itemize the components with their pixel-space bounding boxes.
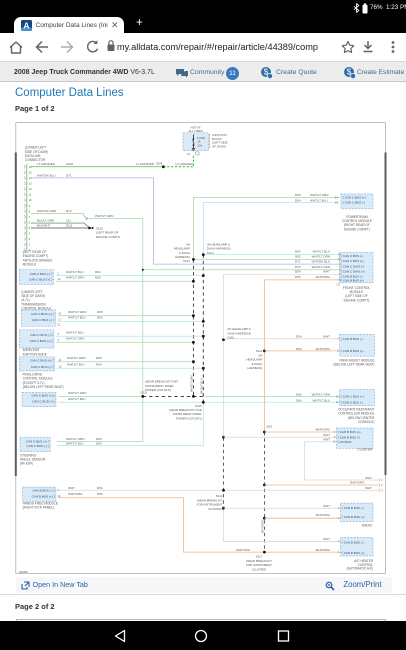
svg-text:ALL TIMES: ALL TIMES <box>188 129 203 133</box>
svg-text:CAN B BUS (+): CAN B BUS (+) <box>343 279 364 283</box>
svg-text:WHT/LT BLU: WHT/LT BLU <box>66 330 84 334</box>
svg-text:LT GRN/RED: LT GRN/RED <box>37 162 56 166</box>
svg-text:WHT/DK BLU: WHT/DK BLU <box>37 173 56 177</box>
svg-text:D64: D64 <box>96 362 102 366</box>
svg-text:WHT/LT GRN: WHT/LT GRN <box>312 255 330 259</box>
svg-text:WHT/ORG: WHT/ORG <box>261 520 265 533</box>
svg-text:CAN B BUS (+): CAN B BUS (+) <box>343 349 364 353</box>
svg-text:D64: D64 <box>96 442 102 446</box>
svg-text:CAN C BUS (-): CAN C BUS (-) <box>30 333 50 337</box>
svg-text:WHT/LT BLU: WHT/LT BLU <box>68 397 86 401</box>
svg-text:CAN B BUS (+): CAN B BUS (+) <box>344 515 365 519</box>
svg-text:CAN C BUS (+): CAN C BUS (+) <box>343 395 364 399</box>
svg-text:WHT/ORG: WHT/ORG <box>236 548 251 552</box>
svg-text:CAN C BUS (+): CAN C BUS (+) <box>343 259 364 263</box>
svg-text:WHT/ORG: WHT/ORG <box>316 275 331 279</box>
svg-text:IGNITION NODE: IGNITION NODE <box>23 352 47 356</box>
svg-text:S112: S112 <box>256 349 263 353</box>
svg-text:Z111: Z111 <box>66 224 73 228</box>
svg-text:S208: S208 <box>156 161 163 165</box>
svg-text:CAN C BUS (-): CAN C BUS (-) <box>343 400 363 404</box>
svg-text:POWER (OUTLET)): POWER (OUTLET)) <box>145 388 171 392</box>
svg-text:WHT/LT BLU: WHT/LT BLU <box>199 378 203 394</box>
svg-text:MODULE: MODULE <box>23 263 37 267</box>
svg-text:WHT/ORG: WHT/ORG <box>350 481 365 485</box>
svg-text:WHT: WHT <box>68 486 75 490</box>
svg-text:CAN B BUS (-): CAN B BUS (-) <box>340 435 360 439</box>
svg-text:WHT: WHT <box>323 537 330 541</box>
svg-text:260365: 260365 <box>19 570 28 574</box>
svg-text:WHT: WHT <box>365 476 372 480</box>
svg-text:CAN B BUS (-): CAN B BUS (-) <box>32 488 52 492</box>
svg-text:CAN C BUS (+): CAN C BUS (+) <box>30 358 51 362</box>
svg-text:CAN C BUS (+): CAN C BUS (+) <box>29 339 50 343</box>
svg-text:WHT: WHT <box>323 270 330 274</box>
svg-text:15: 15 <box>29 170 32 174</box>
svg-text:CAN B BUS (+): CAN B BUS (+) <box>344 551 365 555</box>
svg-text:LIN BUS: LIN BUS <box>340 440 352 444</box>
svg-text:CAN C BUS (+): CAN C BUS (+) <box>29 278 50 282</box>
svg-text:D72: D72 <box>295 265 301 269</box>
svg-text:WHT/LT GRN: WHT/LT GRN <box>68 310 86 314</box>
svg-text:HARNESS): HARNESS) <box>247 366 262 370</box>
svg-text:RADIO: RADIO <box>362 523 373 527</box>
svg-text:CAN B BUS (+): CAN B BUS (+) <box>32 495 53 499</box>
svg-text:CAN C BUS (-): CAN C BUS (-) <box>343 254 363 258</box>
svg-text:S103: S103 <box>183 259 190 263</box>
svg-text:WHT/LT BLU: WHT/LT BLU <box>312 250 330 254</box>
svg-text:C2: C2 <box>337 283 341 287</box>
svg-text:10: 10 <box>29 198 32 202</box>
svg-text:WHT: WHT <box>323 335 330 339</box>
svg-text:ENGINE COMPT): ENGINE COMPT) <box>96 235 120 239</box>
svg-text:CAN C BUS (-): CAN C BUS (-) <box>32 318 52 322</box>
svg-text:WHT/DK BLU: WHT/DK BLU <box>311 259 330 263</box>
svg-text:D64: D64 <box>295 198 301 202</box>
svg-text:WHT/LT GRN: WHT/LT GRN <box>66 276 84 280</box>
svg-text:WHT/LT BLU: WHT/LT BLU <box>66 442 84 446</box>
svg-text:(BELOW LEFT REAR SEAT): (BELOW LEFT REAR SEAT) <box>23 385 64 389</box>
svg-text:D64: D64 <box>97 316 103 320</box>
svg-text:WHT/LT BLU: WHT/LT BLU <box>66 270 84 274</box>
svg-text:WHT: WHT <box>323 438 330 442</box>
svg-text:D64: D64 <box>295 250 301 254</box>
svg-text:WHT/LT GRN: WHT/LT GRN <box>310 193 328 197</box>
svg-text:CAN C BUS (-): CAN C BUS (-) <box>27 444 47 448</box>
svg-text:D65: D65 <box>295 255 301 259</box>
svg-text:LT GRN/RED: LT GRN/RED <box>176 162 195 166</box>
svg-text:WHT/LT GRN: WHT/LT GRN <box>312 393 330 397</box>
svg-text:21: 21 <box>187 152 190 156</box>
svg-text:(BELOW LEFT REAR SEAT): (BELOW LEFT REAR SEAT) <box>334 363 375 367</box>
svg-text:(AUTOMATIC A/C): (AUTOMATIC A/C) <box>347 567 374 571</box>
svg-text:C2: C2 <box>57 323 61 327</box>
svg-text:(W/ ESP): (W/ ESP) <box>20 462 33 466</box>
svg-text:CAN C BUS (+): CAN C BUS (+) <box>31 312 52 316</box>
svg-text:D65: D65 <box>295 193 301 197</box>
svg-text:WHT/LT GRN: WHT/LT GRN <box>66 437 84 441</box>
svg-text:D55: D55 <box>296 347 302 351</box>
svg-text:WHT/DK GRN: WHT/DK GRN <box>37 209 56 213</box>
svg-text:CAN B BUS (-): CAN B BUS (-) <box>344 540 364 544</box>
svg-text:S104: S104 <box>207 251 214 255</box>
svg-text:CAN B BUS (-): CAN B BUS (-) <box>343 337 363 341</box>
svg-text:ENGINE COMPT): ENGINE COMPT) <box>344 227 370 231</box>
svg-text:CLUSTER): CLUSTER) <box>208 507 222 511</box>
svg-text:D65: D65 <box>95 276 101 280</box>
svg-text:D55: D55 <box>295 275 301 279</box>
svg-text:D64: D64 <box>95 270 101 274</box>
svg-text:13: 13 <box>29 182 32 186</box>
svg-text:WHT: WHT <box>365 486 372 490</box>
svg-text:CAN C BUS (-): CAN C BUS (-) <box>32 400 52 404</box>
svg-text:D54: D54 <box>295 270 301 274</box>
svg-text:D64: D64 <box>296 398 302 402</box>
svg-text:CAN C BUS (+): CAN C BUS (+) <box>345 196 366 200</box>
svg-text:WHT/ORG: WHT/ORG <box>316 347 331 351</box>
svg-text:CAN C DIAG (-): CAN C DIAG (-) <box>343 264 364 268</box>
svg-text:WHT/LT GRN: WHT/LT GRN <box>189 375 193 392</box>
svg-text:WHT/LT BLU: WHT/LT BLU <box>312 398 330 402</box>
svg-text:CAN C BUS (+): CAN C BUS (+) <box>26 439 47 443</box>
svg-text:WHT/ORG: WHT/ORG <box>68 492 83 496</box>
svg-text:WHT/LT GRN: WHT/LT GRN <box>95 214 113 218</box>
svg-text:WHT/ORG: WHT/ORG <box>316 513 331 517</box>
svg-text:WHT: WHT <box>323 504 330 508</box>
svg-text:D72: D72 <box>66 209 72 213</box>
svg-text:D55: D55 <box>97 492 103 496</box>
svg-text:12: 12 <box>29 187 32 191</box>
svg-text:D54: D54 <box>296 335 302 339</box>
svg-text:D65: D65 <box>96 356 102 360</box>
svg-text:OF DASH): OF DASH) <box>212 144 226 148</box>
svg-text:CAN C BUS (-): CAN C BUS (-) <box>30 272 50 276</box>
svg-text:BLK/WHT: BLK/WHT <box>37 224 51 228</box>
svg-text:D65: D65 <box>97 310 103 314</box>
svg-text:WHT/ORG: WHT/ORG <box>316 428 331 432</box>
svg-text:WHT/LT GRN: WHT/LT GRN <box>312 265 330 269</box>
svg-text:CLUSTER: CLUSTER <box>358 447 374 451</box>
svg-text:S219: S219 <box>266 425 273 429</box>
svg-text:S110: S110 <box>228 336 235 340</box>
svg-text:D65: D65 <box>296 393 302 397</box>
svg-text:WHT/LT GRN: WHT/LT GRN <box>67 356 85 360</box>
svg-text:WHT/LT BLU: WHT/LT BLU <box>67 362 85 366</box>
svg-text:CAN B BUS (-): CAN B BUS (-) <box>344 506 364 510</box>
svg-text:BLK/LT GRN: BLK/LT GRN <box>37 219 54 223</box>
svg-text:CAN C BUS (-): CAN C BUS (-) <box>345 201 365 205</box>
svg-text:LT GRN/RED: LT GRN/RED <box>136 162 155 166</box>
svg-text:CAN B BUS (+): CAN B BUS (+) <box>340 430 361 434</box>
svg-text:ENGINE COMPT): ENGINE COMPT) <box>344 298 370 302</box>
svg-text:D65: D65 <box>96 437 102 441</box>
svg-text:WHT/LT GRN: WHT/LT GRN <box>68 391 86 395</box>
svg-text:CAN C DIAG (+): CAN C DIAG (+) <box>343 269 365 273</box>
svg-text:10A: 10A <box>197 143 202 147</box>
svg-text:CLUSTER): CLUSTER) <box>252 567 266 571</box>
svg-text:S215: S215 <box>141 390 148 394</box>
svg-text:(RIGHT KICK PANEL): (RIGHT KICK PANEL) <box>23 506 54 510</box>
svg-text:CAN C BUS (-): CAN C BUS (-) <box>31 365 51 369</box>
svg-text:WHT/LT BLU: WHT/LT BLU <box>68 316 86 320</box>
svg-text:11: 11 <box>29 193 32 197</box>
svg-text:WHT/LT GRN: WHT/LT GRN <box>66 337 84 341</box>
svg-text:A100: A100 <box>66 162 73 166</box>
svg-text:CAN C BUS (+): CAN C BUS (+) <box>31 394 52 398</box>
svg-text:Z11: Z11 <box>66 219 71 223</box>
svg-text:POWER (OUTLET)): POWER (OUTLET)) <box>176 416 202 420</box>
svg-text:D71: D71 <box>66 173 72 177</box>
svg-text:CONSOLE): CONSOLE) <box>358 420 375 424</box>
svg-text:WHT/LT BLU: WHT/LT BLU <box>310 198 328 202</box>
svg-text:D54: D54 <box>97 486 103 490</box>
svg-text:WHT: WHT <box>323 433 330 437</box>
svg-text:WHT/ORG: WHT/ORG <box>316 548 331 552</box>
svg-text:D71: D71 <box>295 259 301 263</box>
